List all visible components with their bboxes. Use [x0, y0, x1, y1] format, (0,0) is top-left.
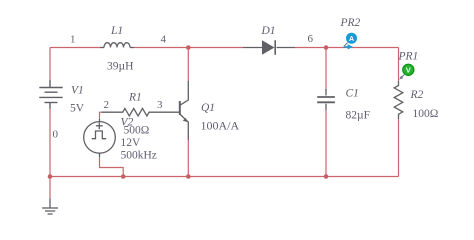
svg-text:0: 0 — [53, 129, 59, 141]
svg-text:L1: L1 — [110, 25, 123, 37]
junction gnd left — [48, 174, 53, 179]
battery V1 — [39, 80, 62, 109]
wire: C1 branch — [325, 48, 327, 177]
junction V2 bottom — [121, 174, 126, 179]
svg-text:D1: D1 — [261, 25, 276, 37]
diode D1 — [243, 40, 295, 55]
wire: V2 bottom L-shape — [100, 157, 124, 177]
svg-text:6: 6 — [308, 33, 314, 45]
D1 anode triangle — [262, 40, 275, 55]
svg-text:2: 2 — [104, 99, 110, 111]
svg-text:5V: 5V — [70, 103, 85, 115]
svg-text:V1: V1 — [71, 85, 84, 97]
svg-text:Q1: Q1 — [201, 102, 215, 114]
junction C1 bottom — [324, 174, 329, 179]
svg-text:PR1: PR1 — [398, 51, 419, 63]
transistor Q1 — [180, 81, 189, 140]
junction emitter — [186, 174, 191, 179]
svg-text:R2: R2 — [410, 89, 424, 101]
wire: node 2 corner V2 to R1 — [100, 112, 102, 119]
wire: Q1 emitter — [187, 140, 189, 177]
wire: left vertical battery branch — [49, 48, 51, 177]
wire: bottom ground rail — [50, 176, 399, 178]
svg-text:12V: 12V — [121, 137, 142, 149]
svg-text:39µH: 39µH — [107, 61, 133, 73]
probe PR2 current — [344, 33, 358, 50]
probe PR1 voltage — [399, 64, 414, 79]
svg-text:4: 4 — [161, 34, 167, 46]
svg-text:V: V — [406, 66, 411, 75]
svg-text:100Ω: 100Ω — [413, 108, 439, 120]
Q1 emitter arrow — [183, 118, 189, 123]
junction node 6/C1 — [324, 45, 329, 50]
svg-text:1: 1 — [70, 34, 76, 46]
svg-text:R1: R1 — [128, 92, 142, 104]
wire: top rail node 4/6 — [50, 47, 399, 49]
resistor R1 — [102, 108, 180, 116]
svg-text:500Ω: 500Ω — [124, 125, 150, 137]
junction node 4 — [186, 45, 191, 50]
svg-text:A: A — [349, 36, 354, 43]
resistor R2 — [394, 81, 403, 119]
svg-text:3: 3 — [157, 99, 163, 111]
wire: Q1 collector — [187, 48, 189, 82]
svg-text:100A/A: 100A/A — [201, 119, 240, 133]
svg-text:500kHz: 500kHz — [121, 150, 157, 162]
svg-text:PR2: PR2 — [340, 17, 361, 29]
svg-text:C1: C1 — [346, 88, 359, 100]
svg-text:82µF: 82µF — [346, 110, 371, 122]
pulse source V2 — [84, 119, 116, 157]
inductor L1 — [100, 43, 134, 48]
wire: ground stem — [49, 177, 51, 199]
ground — [42, 199, 58, 215]
capacitor C1 — [317, 89, 335, 110]
wire: right vertical to R2 — [398, 48, 400, 177]
